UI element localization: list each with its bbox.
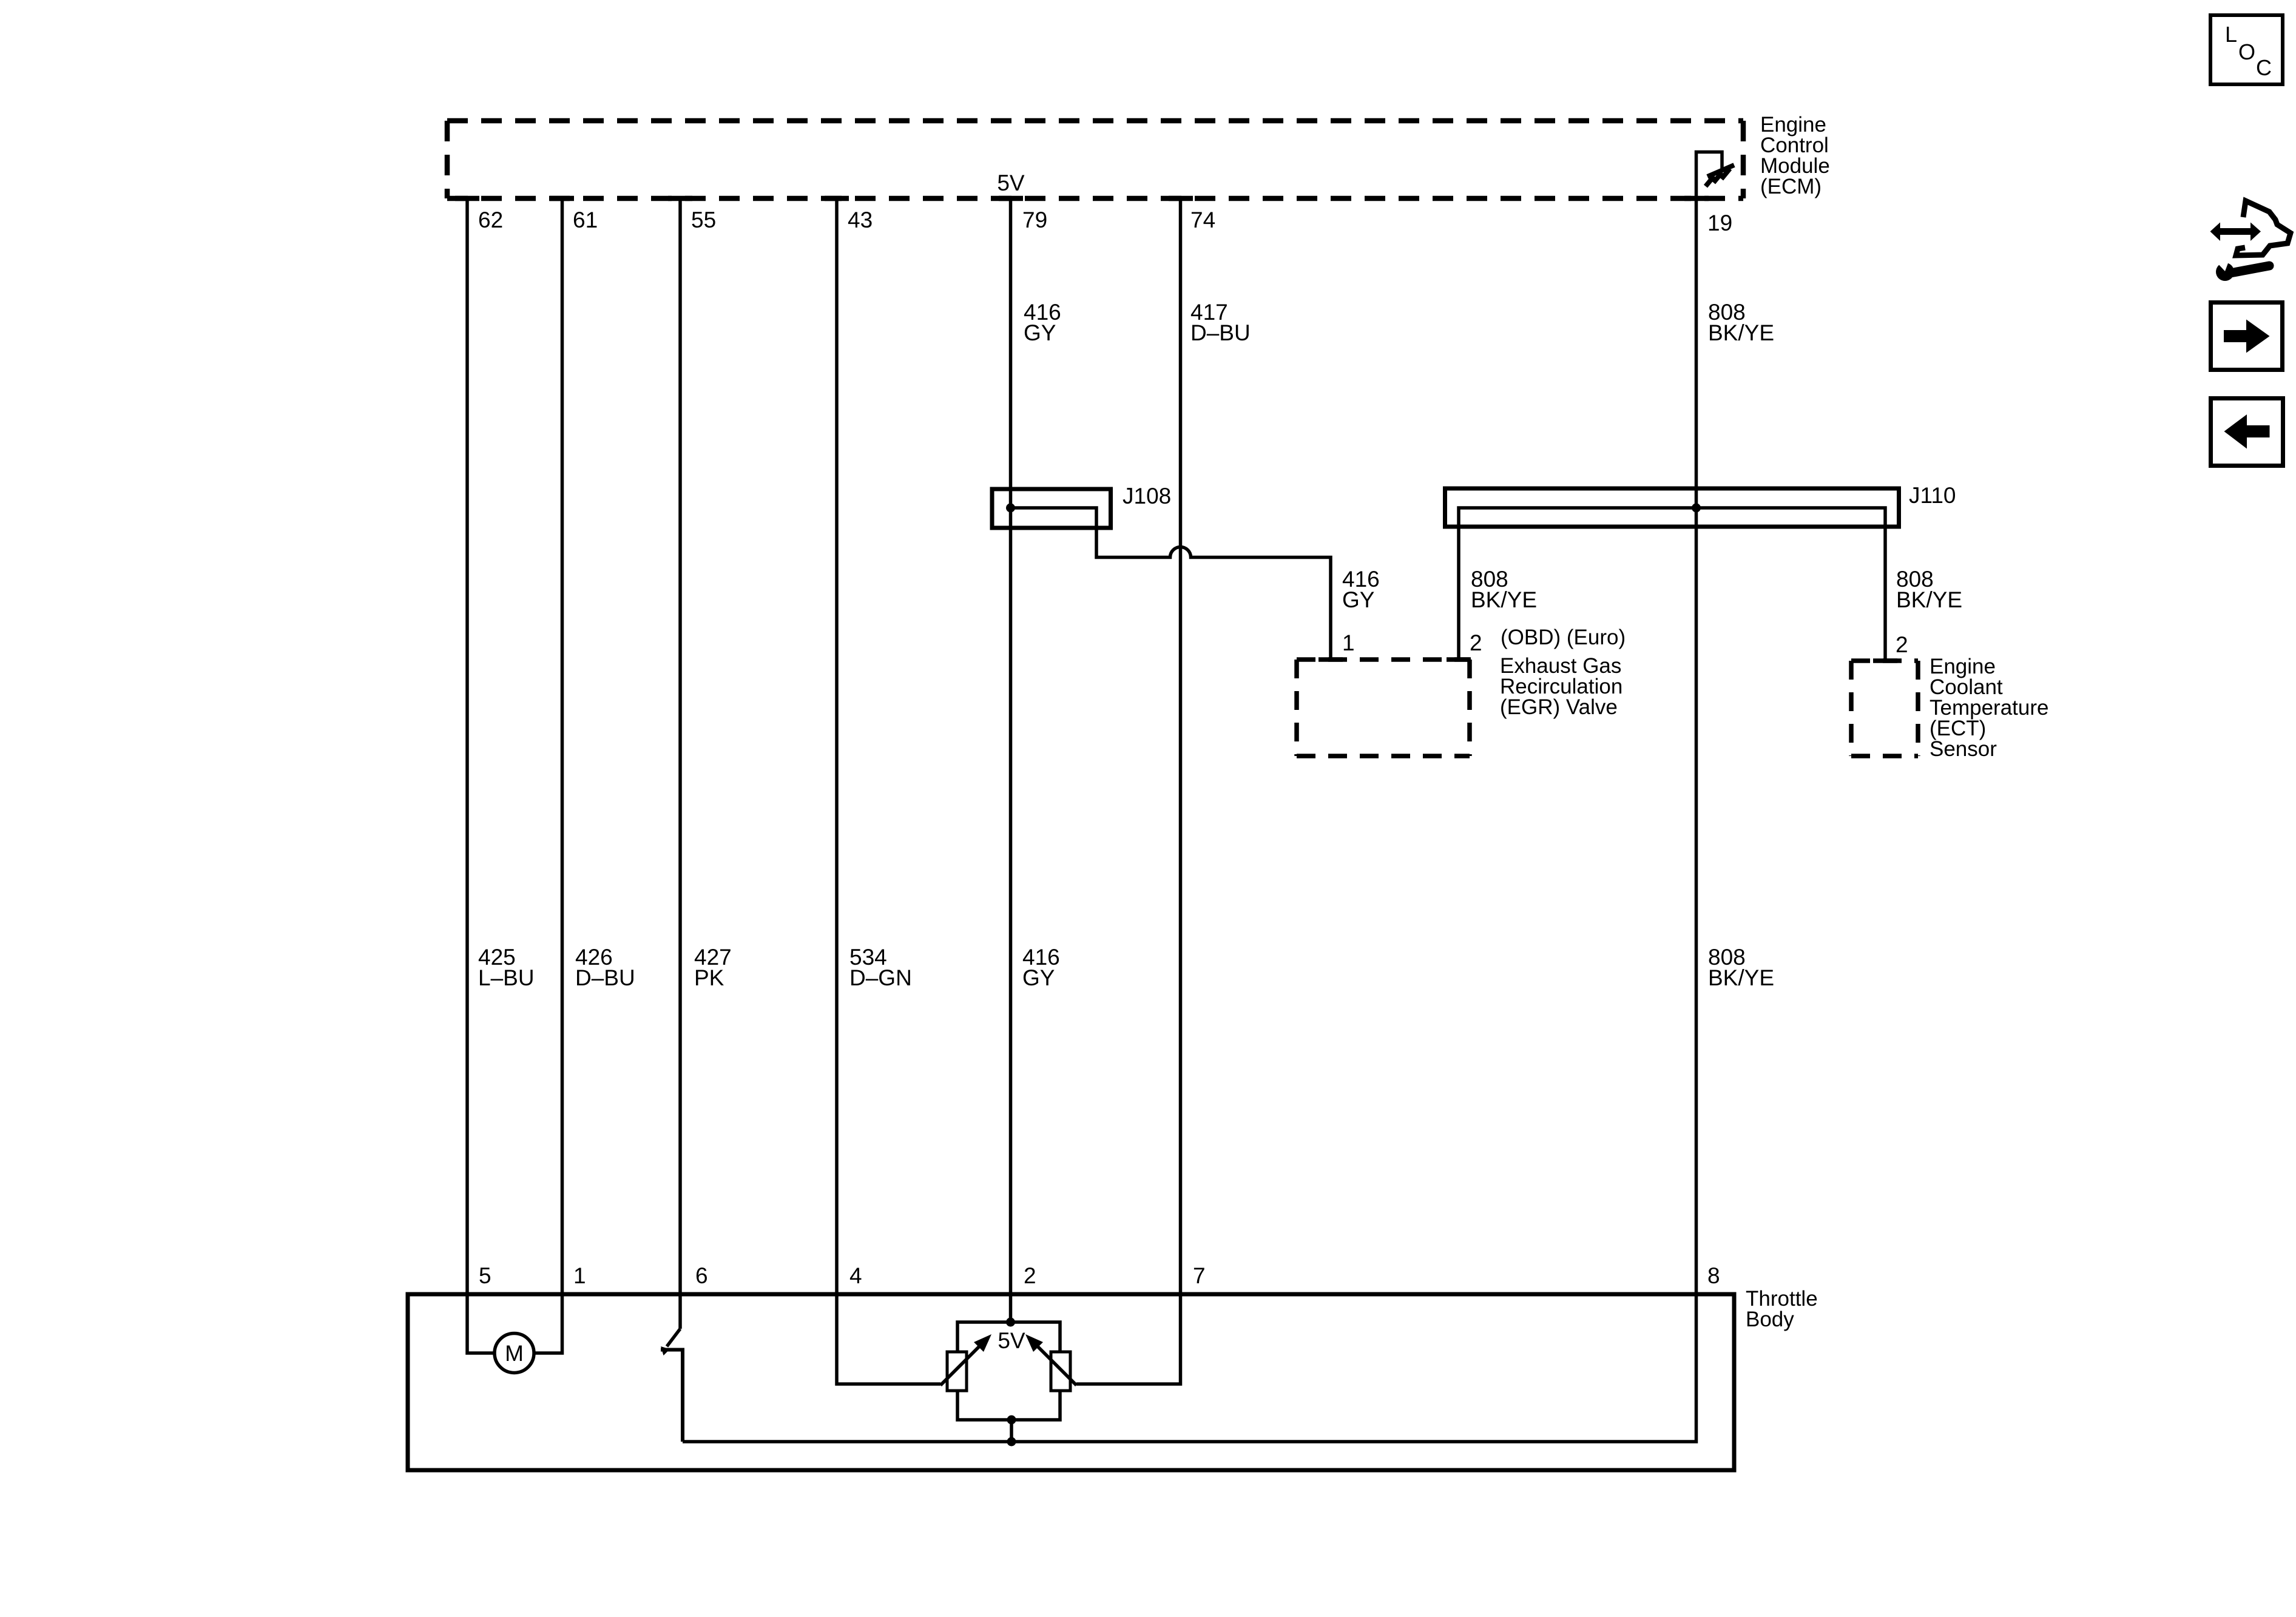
- diagnostic jump icon: double arrow: [2210, 223, 2261, 241]
- switch S1 blade: [667, 1329, 680, 1346]
- svg-text:M: M: [505, 1341, 524, 1366]
- svg-text:Body: Body: [1746, 1308, 1794, 1331]
- svg-text:1: 1: [573, 1263, 586, 1288]
- wire label 416 GY (EGR branch): [1342, 567, 1380, 612]
- svg-text:2: 2: [1896, 632, 1908, 657]
- diagnostic jump icon: wrench: [2215, 260, 2269, 281]
- ground (chassis) symbol G101: [1706, 165, 1734, 186]
- back arrow: [2224, 414, 2270, 449]
- ECT pin terminal dash: [1873, 658, 1897, 663]
- svg-text:L: L: [2225, 22, 2237, 47]
- svg-text:5: 5: [479, 1263, 491, 1288]
- wire label 808 BK/YE (ECT branch): [1896, 567, 1962, 612]
- wire: ECM pin 55 to throttle body pin 6 (circuit 427 PK): [678, 198, 682, 1294]
- node: pot loop bottom junction: [1007, 1416, 1016, 1425]
- svg-text:5V: 5V: [997, 170, 1025, 195]
- wire: ECM pin 61 to throttle body pin 1 (circuit 426 D-BU): [561, 198, 564, 1294]
- svg-text:J108: J108: [1123, 484, 1171, 508]
- EGR pin terminal dashes: [1319, 657, 1471, 662]
- TP sensor 2 wiper arrow: [1034, 1343, 1076, 1385]
- wire: ECM pin 43 to throttle body pin 4 (circuit 534 D-GN): [835, 198, 839, 1294]
- wire: ECM pin 19 to throttle body pin 8 (circuit 808 BK/YE): [1695, 198, 1698, 1294]
- ECM module box (dashed): [447, 121, 1743, 198]
- svg-text:5V: 5V: [998, 1328, 1025, 1353]
- ECT sensor name label: [1930, 655, 2048, 761]
- switch S1 lower contact and lead: [661, 1350, 683, 1442]
- wire: J110 internal bus to EGR pin 2 and ECT pin 2: [1459, 508, 1885, 661]
- wire label 427 PK: [694, 945, 732, 990]
- resistor R2 (TP sensor 2 wiper element): [1051, 1352, 1070, 1391]
- LOC legend box: [2210, 15, 2283, 84]
- forward arrow: [2224, 320, 2270, 353]
- Throttle Body box: [408, 1294, 1734, 1470]
- svg-text:BK/YE: BK/YE: [1896, 587, 1962, 612]
- diagnostic jump icon: connector outline: [2236, 201, 2291, 255]
- wire label 425 L-BU: [478, 945, 535, 990]
- svg-text:79: 79: [1022, 208, 1047, 232]
- svg-text:4: 4: [849, 1263, 862, 1288]
- svg-text:J110: J110: [1909, 483, 1956, 508]
- svg-text:(EGR) Valve: (EGR) Valve: [1500, 695, 1618, 719]
- svg-text:43: 43: [848, 208, 873, 232]
- svg-text:61: 61: [573, 208, 598, 232]
- node: junction dot in J108: [1006, 504, 1015, 513]
- Throttle Body name label: [1746, 1287, 1818, 1331]
- wire label 426 D-BU: [575, 945, 635, 990]
- svg-text:D–BU: D–BU: [1190, 320, 1251, 345]
- svg-text:GY: GY: [1022, 965, 1055, 990]
- svg-text:GY: GY: [1342, 587, 1374, 612]
- wire label 417 D-BU (upper): [1190, 300, 1251, 345]
- svg-text:C: C: [2256, 55, 2272, 80]
- wire: throttle pin 4 to TP sensor 1 wiper: [837, 1294, 940, 1384]
- forward arrow box: [2211, 303, 2283, 370]
- svg-text:O: O: [2238, 39, 2255, 64]
- splice J110 box: [1445, 488, 1899, 527]
- node: return bus junction: [1007, 1437, 1016, 1447]
- wire label 808 BK/YE (upper): [1708, 300, 1774, 345]
- wire: potentiometer loop bottom to return bus: [1010, 1420, 1013, 1442]
- wire: throttle pin 5 to motor: [467, 1294, 495, 1353]
- potentiometer supply loop (TP sensor): [957, 1322, 1060, 1420]
- wire: ECM pin 74 to throttle body pin 7 (circuit 417 D-BU): [1179, 198, 1183, 1294]
- resistor R1 (TP sensor 1 wiper element): [947, 1352, 967, 1391]
- svg-text:L–BU: L–BU: [478, 965, 535, 990]
- wire: throttle pin 1 to motor: [534, 1294, 562, 1353]
- svg-text:6: 6: [695, 1263, 708, 1288]
- svg-text:7: 7: [1193, 1263, 1206, 1288]
- wire label 416 GY (lower): [1022, 945, 1060, 990]
- svg-text:(ECM): (ECM): [1760, 175, 1822, 198]
- svg-text:1: 1: [1342, 630, 1355, 655]
- svg-text:62: 62: [478, 208, 503, 232]
- ECM pin terminal dashes: [455, 196, 1709, 201]
- wire: ECM pin 62 to throttle body pin 5 (circuit 425 L-BU): [465, 198, 469, 1294]
- switch S1 (closed throttle position) upper lead: [678, 1294, 682, 1329]
- svg-text:GY: GY: [1024, 320, 1056, 345]
- svg-text:D–BU: D–BU: [575, 965, 635, 990]
- svg-text:74: 74: [1190, 208, 1215, 232]
- EGR valve name label: [1500, 654, 1622, 719]
- svg-text:19: 19: [1707, 211, 1732, 235]
- back arrow box: [2211, 399, 2283, 466]
- node: junction dot in J110: [1692, 504, 1701, 513]
- node: pot loop top junction: [1006, 1318, 1015, 1327]
- svg-text:PK: PK: [694, 965, 724, 990]
- svg-text:8: 8: [1707, 1263, 1720, 1288]
- svg-text:55: 55: [691, 208, 716, 232]
- wire label 808 BK/YE (lower): [1708, 945, 1774, 990]
- switch S1 blade arrowhead: [661, 1346, 670, 1355]
- motor M1 (throttle actuator): [495, 1334, 534, 1373]
- svg-text:2: 2: [1024, 1263, 1036, 1288]
- wire label 534 D-GN: [849, 945, 912, 990]
- wire: ECM pin 79 to throttle body pin 2 (circuit 416 GY): [1009, 198, 1013, 1294]
- LOC letters: [2225, 22, 2272, 80]
- svg-text:(OBD) (Euro): (OBD) (Euro): [1501, 626, 1626, 649]
- wire: J108 branch to EGR pin 1 with hop over circuit 417: [1011, 508, 1331, 660]
- svg-text:2: 2: [1470, 630, 1482, 655]
- svg-text:BK/YE: BK/YE: [1471, 587, 1537, 612]
- EGR valve box (dashed): [1297, 660, 1470, 756]
- splice J108 box: [992, 489, 1111, 528]
- svg-text:D–GN: D–GN: [849, 965, 912, 990]
- wire: pin 2 to potentiometer loop top: [1009, 1294, 1013, 1322]
- wire: ground lead inside ECM pin 19: [1697, 152, 1723, 199]
- svg-text:BK/YE: BK/YE: [1708, 320, 1774, 345]
- ECM name label: [1760, 113, 1830, 198]
- wire: common return bus to pin 8: [683, 1294, 1697, 1442]
- TP sensor 1 wiper arrow: [940, 1343, 983, 1385]
- wire label 808 BK/YE (EGR branch): [1471, 567, 1537, 612]
- svg-text:BK/YE: BK/YE: [1708, 965, 1774, 990]
- ECT sensor box (dashed): [1851, 661, 1918, 756]
- svg-text:Sensor: Sensor: [1930, 737, 1997, 761]
- wire label 416 GY (upper): [1024, 300, 1061, 345]
- wire: throttle pin 7 to TP sensor 2 wiper: [1076, 1294, 1181, 1384]
